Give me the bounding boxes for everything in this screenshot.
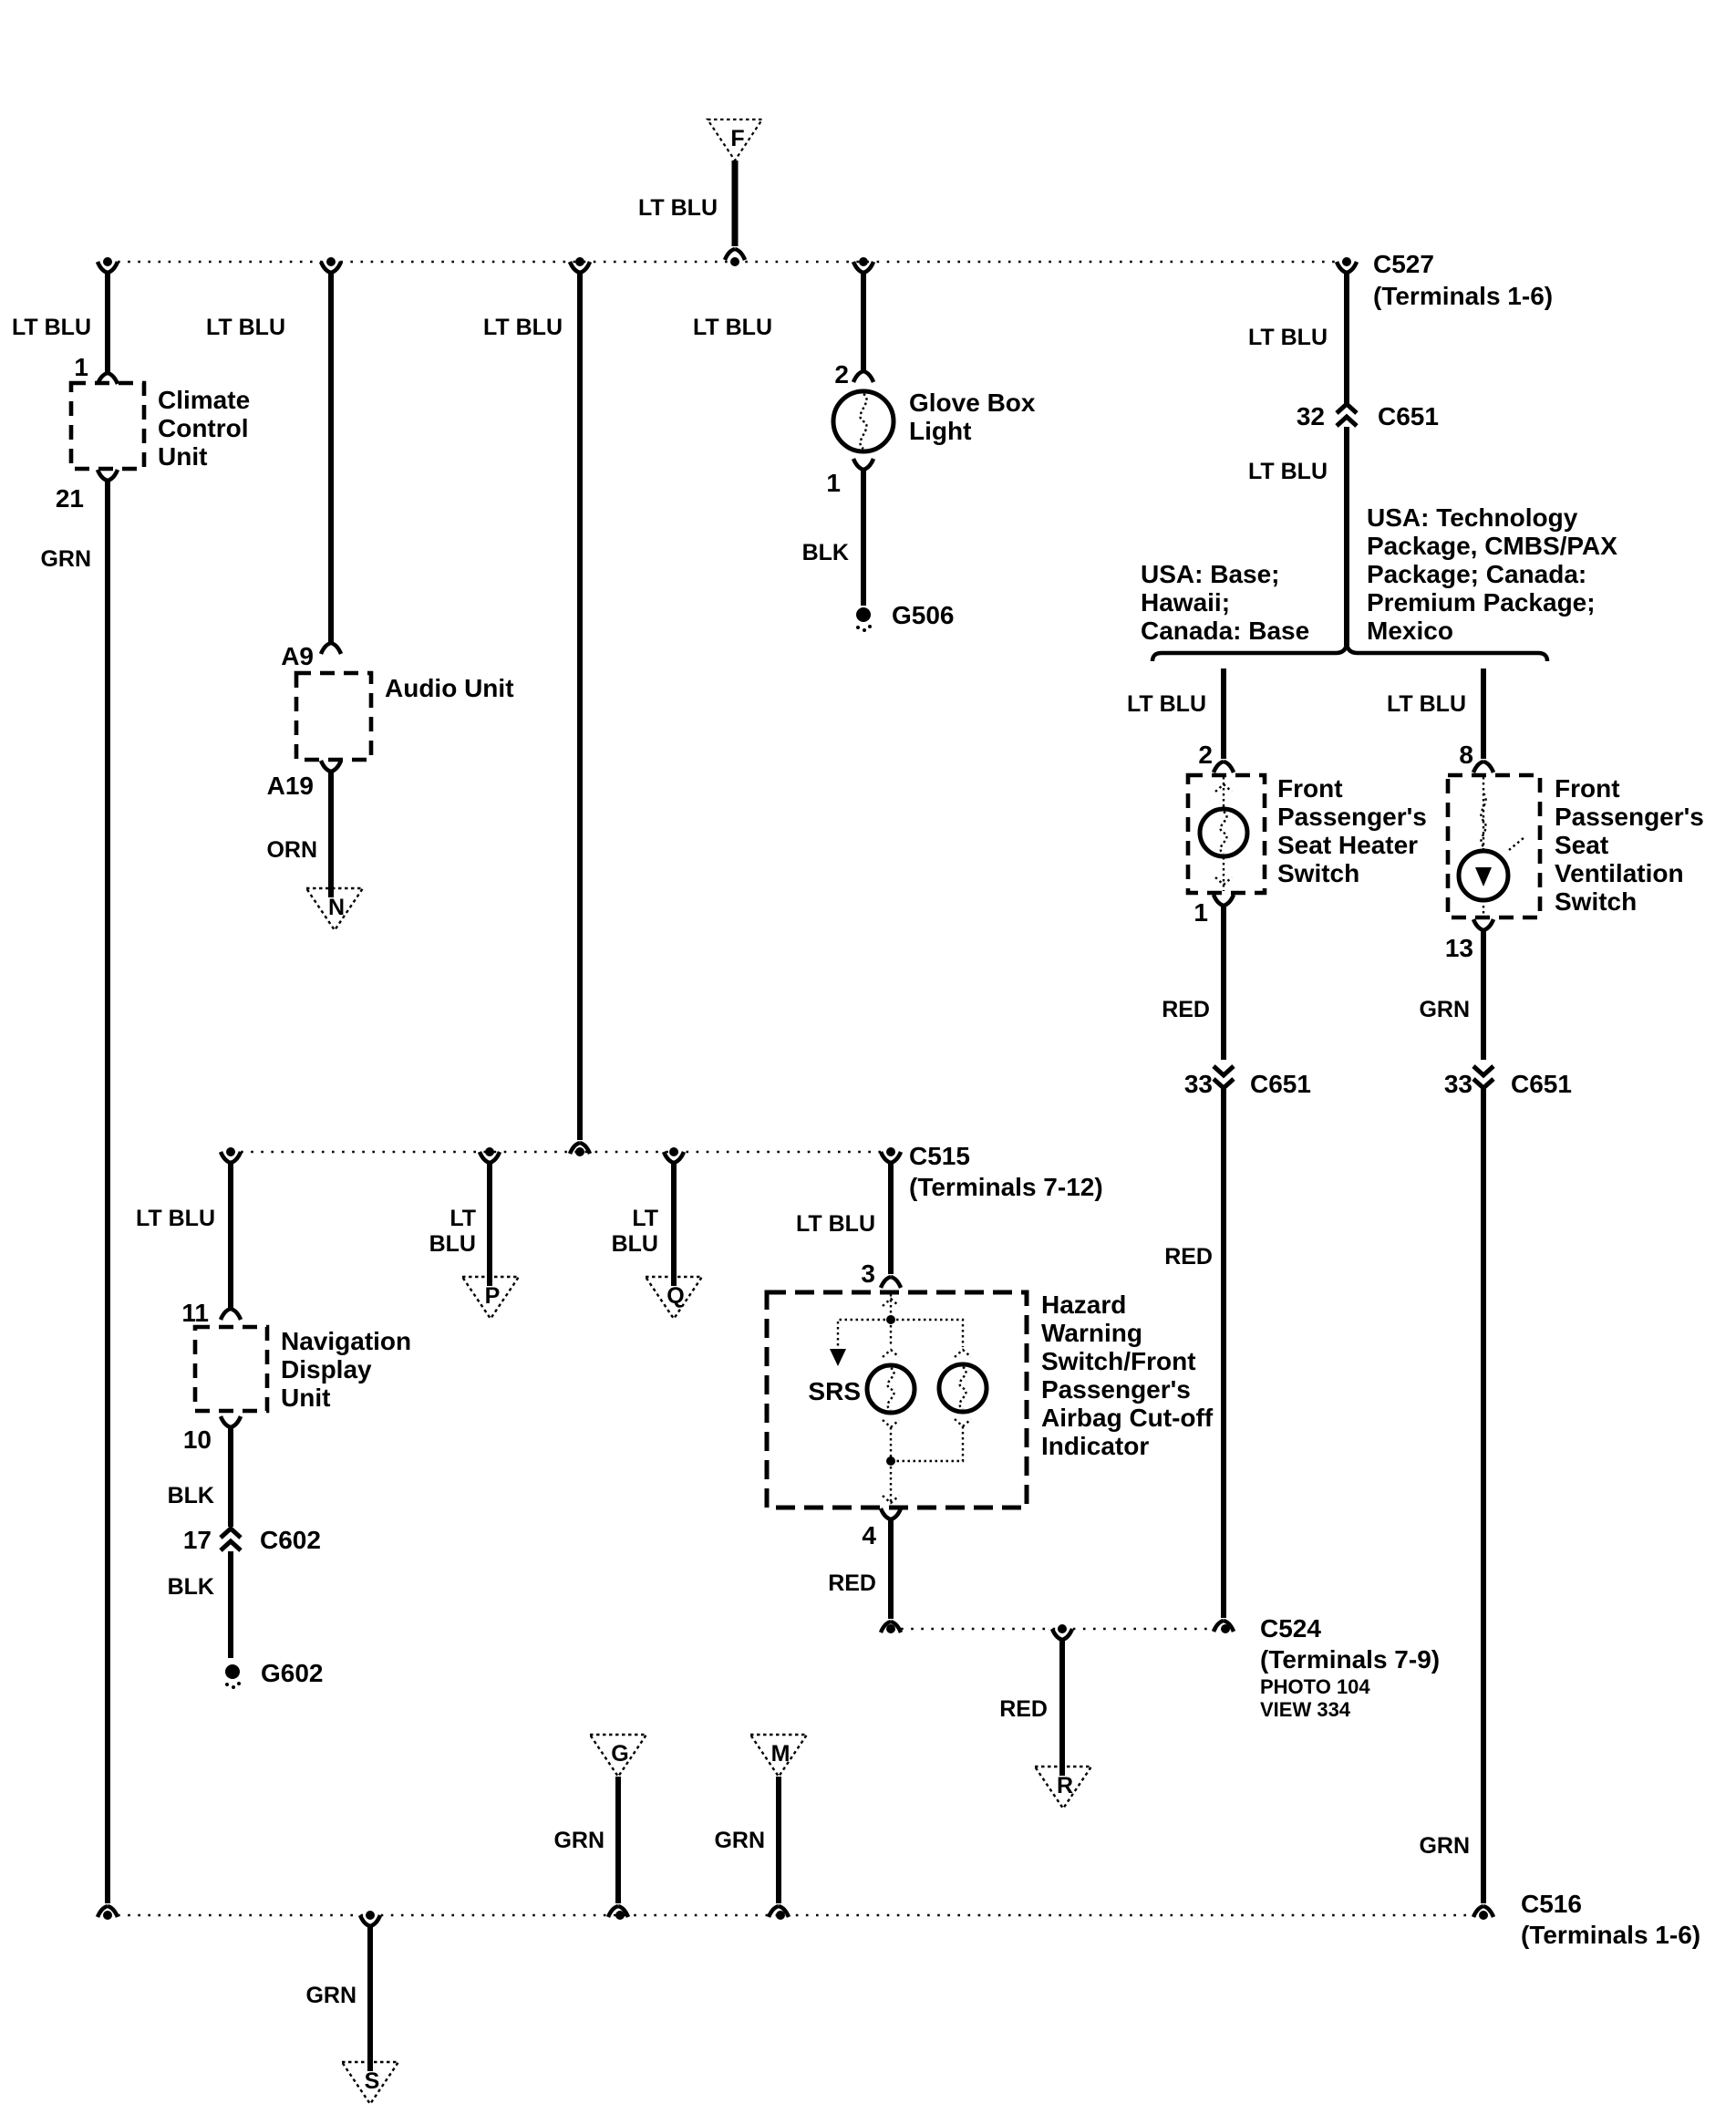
svg-text:11: 11: [181, 1299, 209, 1327]
svg-text:(Terminals 7-12): (Terminals 7-12): [909, 1173, 1103, 1201]
svg-text:Canada: Base: Canada: Base: [1141, 617, 1309, 645]
terminal fork top of nav wire: [221, 1152, 241, 1163]
svg-text:Airbag Cut-off: Airbag Cut-off: [1041, 1404, 1214, 1432]
svg-text:Control: Control: [158, 414, 249, 442]
svg-text:Front: Front: [1555, 774, 1620, 803]
svg-text:Ventilation: Ventilation: [1555, 859, 1684, 887]
vent switch fan symbol: [1459, 851, 1508, 900]
hazard SRS indicator bulb: [867, 1365, 914, 1413]
terminal fork at heater pin 2: [1214, 762, 1234, 772]
svg-text:33: 33: [1444, 1070, 1472, 1098]
svg-text:LT BLU: LT BLU: [1387, 691, 1466, 717]
terminal fork at climate pin 21: [98, 470, 118, 481]
svg-text:USA: Base;: USA: Base;: [1141, 560, 1279, 588]
junction bus2 / P wire: [485, 1147, 494, 1156]
split brace: [1152, 645, 1547, 661]
svg-text:LT BLU: LT BLU: [1248, 459, 1328, 484]
svg-text:C651: C651: [1250, 1070, 1311, 1098]
svg-text:A19: A19: [267, 772, 314, 800]
svg-text:Unit: Unit: [281, 1384, 330, 1412]
junction bus3 / hazard wire: [886, 1624, 895, 1633]
ground G602: [225, 1659, 324, 1689]
wire RED to R: [1059, 1640, 1065, 1776]
svg-text:Switch: Switch: [1277, 859, 1359, 887]
terminal fork at vent pin 13: [1473, 919, 1493, 930]
terminal fork at hazard pin 4: [881, 1508, 901, 1519]
svg-text:Warning: Warning: [1041, 1319, 1142, 1347]
terminal fork at nav pin 10: [221, 1416, 241, 1427]
svg-text:LT: LT: [632, 1206, 658, 1231]
climate control unit box: [71, 383, 144, 469]
svg-text:Hawaii;: Hawaii;: [1141, 588, 1230, 617]
svg-text:LT BLU: LT BLU: [1248, 325, 1328, 350]
svg-text:F: F: [730, 126, 744, 151]
svg-text:Package, CMBS/PAX: Package, CMBS/PAX: [1367, 532, 1617, 560]
svg-text:Passenger's: Passenger's: [1277, 803, 1427, 831]
svg-text:1: 1: [826, 469, 841, 497]
wire LT BLU to P: [487, 1163, 492, 1286]
svg-text:Seat: Seat: [1555, 831, 1608, 859]
svg-text:(Terminals 1-6): (Terminals 1-6): [1521, 1921, 1700, 1949]
svg-text:Package; Canada:: Package; Canada:: [1367, 560, 1586, 588]
connector triangle P: [462, 1277, 519, 1319]
svg-text:Glove Box: Glove Box: [909, 389, 1036, 417]
SRS arrow: [830, 1349, 846, 1366]
svg-text:C516: C516: [1521, 1890, 1582, 1918]
junction at bus1 / long wire: [575, 257, 584, 266]
terminal fork at audio pin A9: [321, 643, 341, 654]
wire GRN from G to bus4: [615, 1777, 621, 1903]
wire LT BLU stub to seat heater switch: [1221, 669, 1226, 759]
terminal fork at glove pin 2: [853, 371, 873, 382]
svg-text:USA: Technology: USA: Technology: [1367, 503, 1578, 532]
svg-text:(Terminals 1-6): (Terminals 1-6): [1373, 282, 1553, 310]
svg-text:LT BLU: LT BLU: [1127, 691, 1206, 717]
junction bus2 / nav wire: [226, 1147, 235, 1156]
bus4 dotted wire C516: [108, 1914, 1483, 1917]
svg-text:GRN: GRN: [1419, 997, 1470, 1022]
junction at bus1 / F wire: [730, 257, 739, 266]
junction bus4 / S wire: [366, 1911, 375, 1920]
label Climate Control Unit: [158, 386, 250, 471]
terminal fork at nav pin 11: [221, 1309, 241, 1320]
svg-text:Switch/Front: Switch/Front: [1041, 1347, 1196, 1375]
audio unit box: [296, 673, 371, 760]
terminal fork at climate pin 1: [98, 373, 118, 384]
navigation display unit box: [195, 1327, 267, 1411]
svg-text:C515: C515: [909, 1142, 970, 1170]
junction at bus1 / C527 wire: [1342, 257, 1351, 266]
svg-text:C602: C602: [260, 1526, 321, 1554]
svg-text:Front: Front: [1277, 774, 1343, 803]
terminal fork top of P wire: [480, 1152, 500, 1163]
wire LT BLU C527 to C651: [1344, 273, 1349, 403]
junction bus4 / climate wire: [103, 1911, 112, 1920]
wire LT BLU bus1 to bus2: [577, 273, 583, 1140]
svg-text:GRN: GRN: [40, 546, 91, 572]
junction bus4 / G wire: [615, 1911, 625, 1920]
svg-text:RED: RED: [1164, 1244, 1213, 1270]
terminal fork at glove pin 1: [853, 459, 873, 470]
svg-text:BLK: BLK: [168, 1574, 214, 1600]
in-line connector C651 pin 32: [1337, 404, 1357, 426]
terminal fork heater wire at bus3: [1214, 1621, 1234, 1632]
terminal fork G wire at bus4: [608, 1906, 628, 1917]
svg-text:33: 33: [1184, 1070, 1213, 1098]
svg-text:Hazard: Hazard: [1041, 1290, 1126, 1319]
front passenger seat ventilation switch box: [1448, 775, 1540, 917]
bus3 dotted wire C524: [891, 1628, 1225, 1631]
svg-text:LT BLU: LT BLU: [12, 315, 91, 340]
terminal fork top of hazard wire: [881, 1152, 901, 1163]
junction bus3 / heater wire: [1221, 1624, 1230, 1633]
glove box light bulb: [833, 391, 894, 451]
svg-text:C651: C651: [1378, 402, 1439, 430]
in-line connector C602 pin 17: [221, 1529, 241, 1550]
svg-text:LT BLU: LT BLU: [206, 315, 285, 340]
heater switch internal dotted wire: [1223, 777, 1224, 891]
wire BLK nav to C602: [228, 1427, 233, 1527]
connector triangle M: [750, 1735, 807, 1777]
vent switch internal dotted wire: [1483, 777, 1484, 916]
svg-text:LT BLU: LT BLU: [136, 1206, 215, 1231]
svg-text:BLU: BLU: [612, 1231, 658, 1257]
svg-text:Light: Light: [909, 417, 971, 445]
svg-text:BLU: BLU: [429, 1231, 476, 1257]
terminal fork at bus1 below F: [725, 249, 745, 260]
svg-text:Display: Display: [281, 1355, 372, 1384]
terminal fork hazard wire at bus3: [881, 1622, 901, 1632]
svg-text:M: M: [771, 1741, 790, 1767]
svg-text:Passenger's: Passenger's: [1041, 1375, 1191, 1404]
terminal fork top of S wire: [360, 1915, 380, 1926]
bus1 dotted wire C527 feed: [108, 261, 1347, 264]
svg-text:GRN: GRN: [553, 1828, 604, 1853]
svg-text:10: 10: [183, 1425, 212, 1454]
svg-text:Audio Unit: Audio Unit: [385, 674, 514, 702]
wire GRN climate to bus4: [105, 481, 110, 1903]
svg-text:C524: C524: [1260, 1614, 1321, 1643]
svg-text:G: G: [611, 1741, 628, 1767]
terminal fork top of Q wire: [664, 1152, 684, 1163]
wire GRN from M to bus4: [776, 1777, 781, 1903]
wire GRN bus4 to S: [367, 1926, 373, 2071]
label Front Passengers Seat Ventilation Switch: [1555, 774, 1704, 916]
junction bus2 / long wire: [575, 1147, 584, 1156]
svg-text:1: 1: [1193, 898, 1208, 927]
svg-text:(Terminals 7-9): (Terminals 7-9): [1260, 1645, 1440, 1674]
label Navigation Display Unit: [281, 1327, 411, 1412]
terminal fork top of climate wire: [98, 262, 118, 273]
svg-text:Switch: Switch: [1555, 887, 1637, 916]
note USA base models: [1141, 560, 1309, 645]
terminal fork vent wire at bus4: [1473, 1906, 1493, 1917]
wire LT BLU from F to bus1: [732, 161, 739, 246]
svg-text:SRS: SRS: [808, 1377, 861, 1405]
terminal fork top of audio wire: [321, 262, 341, 273]
svg-text:17: 17: [183, 1526, 212, 1554]
svg-text:BLK: BLK: [802, 540, 849, 565]
svg-text:Q: Q: [666, 1283, 684, 1309]
svg-text:32: 32: [1297, 402, 1325, 430]
hazard warning switch box: [767, 1292, 1027, 1508]
wire LT BLU to climate control unit: [105, 273, 110, 374]
svg-text:2: 2: [1198, 741, 1213, 769]
wire LT BLU stub to seat ventilation switch: [1481, 669, 1486, 759]
svg-text:1: 1: [74, 353, 88, 381]
hazard switch bulb: [939, 1364, 987, 1412]
terminal fork top of R wire: [1052, 1629, 1072, 1640]
wire LT BLU C651 to brace: [1344, 427, 1349, 646]
wire LT BLU to navigation display unit: [228, 1163, 233, 1310]
wire LT BLU to audio unit: [328, 273, 334, 644]
terminal fork top of C527 wire: [1337, 262, 1357, 273]
terminal fork top of glove box wire: [853, 262, 873, 273]
connector triangle F: [708, 119, 762, 161]
wire GRN vent switch down: [1481, 930, 1486, 1060]
hazard internal dotted circuit: [883, 1294, 899, 1317]
hazard internal junction bottom: [886, 1456, 895, 1466]
svg-text:4: 4: [862, 1521, 876, 1549]
svg-text:GRN: GRN: [1419, 1833, 1470, 1859]
junction at bus1 / climate wire: [103, 257, 112, 266]
wire LT BLU to Q: [671, 1163, 677, 1286]
svg-text:G602: G602: [261, 1659, 324, 1687]
junction at bus1 / glove box wire: [859, 257, 868, 266]
label Front Passengers Seat Heater Switch: [1277, 774, 1427, 887]
junction bus4 / vent wire: [1479, 1911, 1488, 1920]
svg-text:LT BLU: LT BLU: [796, 1211, 875, 1237]
svg-text:LT: LT: [449, 1206, 476, 1231]
svg-text:Climate: Climate: [158, 386, 250, 414]
svg-text:21: 21: [56, 484, 84, 513]
svg-text:RED: RED: [999, 1696, 1048, 1722]
terminal fork climate wire at bus4: [98, 1906, 118, 1917]
wire ORN audio to N: [328, 772, 334, 897]
svg-text:13: 13: [1445, 934, 1473, 962]
svg-text:3: 3: [861, 1259, 875, 1288]
wire LT BLU to glove box light: [861, 273, 866, 372]
wire LT BLU to hazard switch: [888, 1163, 894, 1274]
terminal fork at vent pin 8: [1473, 762, 1493, 772]
svg-text:R: R: [1057, 1773, 1073, 1798]
junction bus4 / M wire: [776, 1911, 785, 1920]
connector triangle G: [590, 1735, 646, 1777]
wire BLK glove box to ground: [861, 470, 866, 606]
svg-text:GRN: GRN: [305, 1983, 356, 2008]
svg-text:RED: RED: [1162, 997, 1210, 1022]
wire BLK C602 to ground: [228, 1551, 233, 1658]
terminal fork at heater pin 1: [1214, 895, 1234, 906]
in-line connector C651 pin 33 right: [1473, 1066, 1493, 1088]
svg-text:Navigation: Navigation: [281, 1327, 411, 1355]
svg-text:C527: C527: [1373, 250, 1434, 278]
svg-text:Seat Heater: Seat Heater: [1277, 831, 1418, 859]
svg-text:BLK: BLK: [168, 1483, 214, 1508]
wire GRN C651 to bus4: [1481, 1089, 1486, 1903]
label Glove Box Light: [909, 389, 1036, 445]
svg-text:GRN: GRN: [714, 1828, 765, 1853]
svg-text:LT BLU: LT BLU: [483, 315, 563, 340]
svg-text:A9: A9: [281, 642, 314, 670]
junction bus3 / R wire: [1058, 1624, 1067, 1633]
connector triangle Q: [646, 1277, 702, 1319]
wire RED heater switch down: [1221, 906, 1226, 1060]
terminal fork at hazard pin 3: [881, 1277, 901, 1288]
svg-text:LT BLU: LT BLU: [693, 315, 772, 340]
front passenger seat heater switch box: [1188, 775, 1265, 893]
connector triangle S: [342, 2062, 398, 2104]
hazard internal junction top: [886, 1315, 895, 1324]
svg-text:Mexico: Mexico: [1367, 617, 1453, 645]
terminal fork M wire at bus4: [769, 1906, 789, 1917]
connector triangle N: [306, 888, 363, 930]
svg-text:Premium Package;: Premium Package;: [1367, 588, 1596, 617]
wire RED hazard to bus3: [888, 1519, 894, 1619]
terminal fork long wire at bus2: [570, 1143, 590, 1154]
ground G506: [856, 601, 955, 632]
svg-text:ORN: ORN: [266, 837, 317, 863]
in-line connector C651 pin 33 left: [1214, 1066, 1234, 1088]
svg-text:PHOTO 104: PHOTO 104: [1260, 1675, 1370, 1698]
svg-text:RED: RED: [828, 1570, 876, 1596]
svg-text:G506: G506: [892, 601, 955, 629]
svg-text:P: P: [485, 1283, 501, 1309]
terminal fork at audio pin A19: [321, 761, 341, 772]
connector triangle R: [1035, 1767, 1091, 1809]
junction bus2 / Q wire: [669, 1147, 678, 1156]
note USA technology package models: [1367, 503, 1617, 645]
svg-text:Passenger's: Passenger's: [1555, 803, 1704, 831]
svg-text:8: 8: [1459, 741, 1473, 769]
svg-text:LT BLU: LT BLU: [638, 195, 718, 221]
heater switch indicator bulb: [1200, 809, 1247, 856]
svg-text:VIEW 334: VIEW 334: [1260, 1698, 1351, 1721]
svg-text:N: N: [328, 895, 345, 920]
svg-text:Unit: Unit: [158, 442, 207, 471]
svg-text:Indicator: Indicator: [1041, 1432, 1149, 1460]
junction at bus1 / audio wire: [326, 257, 336, 266]
terminal fork top of long wire: [570, 262, 590, 273]
junction bus2 / hazard wire: [886, 1147, 895, 1156]
wire RED C651 to bus3: [1221, 1089, 1226, 1618]
svg-text:S: S: [365, 2068, 380, 2094]
svg-text:2: 2: [834, 360, 849, 389]
svg-text:C651: C651: [1511, 1070, 1572, 1098]
label Hazard Warning Switch: [1041, 1290, 1214, 1460]
bus2 dotted wire C515: [231, 1151, 891, 1154]
